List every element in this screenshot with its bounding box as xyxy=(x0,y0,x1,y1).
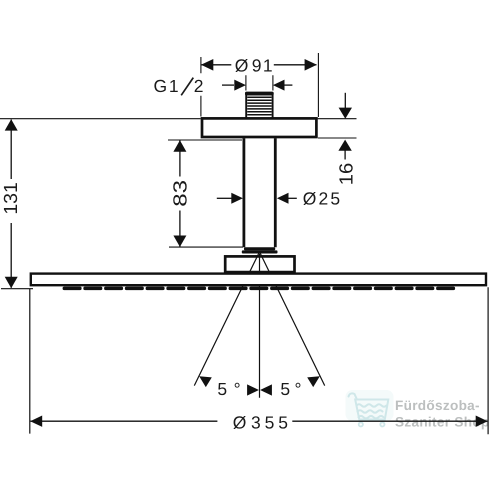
spray right tangent arrow xyxy=(307,376,320,387)
ceiling line xyxy=(0,118,357,120)
dim Ø91 extension lines xyxy=(201,53,319,117)
svg-text:Ø: Ø xyxy=(235,56,249,76)
label Ø25 text xyxy=(303,188,340,208)
spray right diagonal xyxy=(260,252,325,386)
svg-text:9: 9 xyxy=(252,56,262,76)
svg-text:5: 5 xyxy=(217,379,227,399)
G1/2 leader left xyxy=(222,84,234,86)
dim 131 line xyxy=(10,120,12,288)
svg-text:5: 5 xyxy=(278,413,288,433)
svg-text:°: ° xyxy=(234,379,241,399)
threaded rod hatch xyxy=(247,97,271,114)
spray bowtie arrows xyxy=(247,384,259,395)
dim Ø91 line xyxy=(202,64,317,66)
nozzle dashes xyxy=(63,287,456,291)
label Ø25 left arrow xyxy=(217,197,232,199)
svg-text:1: 1 xyxy=(169,76,179,96)
spray center line xyxy=(259,254,261,398)
label Ø25 right arrow xyxy=(288,197,296,199)
flange plate xyxy=(202,118,316,137)
pipe nut band 1 xyxy=(244,247,275,250)
dim Ø91 arrows xyxy=(201,59,213,71)
svg-text:5: 5 xyxy=(265,413,275,433)
svg-text:°: ° xyxy=(295,379,302,399)
pipe nut band 2 xyxy=(242,250,278,253)
svg-text:Szaniter Shop: Szaniter Shop xyxy=(395,415,490,430)
svg-text:131: 131 xyxy=(1,182,22,215)
dim 131 arrows xyxy=(5,119,18,130)
watermark cart icon xyxy=(349,393,389,426)
watermark text xyxy=(395,398,490,430)
dim 83 arrows xyxy=(173,140,186,151)
svg-text:Ø: Ø xyxy=(303,188,317,208)
dim Ø355 text xyxy=(233,413,288,433)
svg-text:G: G xyxy=(154,76,168,96)
svg-text:5: 5 xyxy=(330,188,340,208)
dim 83 extension lines xyxy=(168,140,243,247)
dim 16 down arrow xyxy=(344,93,346,108)
threaded rod sides xyxy=(246,93,272,118)
head body xyxy=(31,274,486,286)
watermark bubble xyxy=(346,390,394,421)
svg-text:2: 2 xyxy=(194,76,204,96)
svg-text:2: 2 xyxy=(319,188,329,208)
label 5° right xyxy=(280,379,301,399)
svg-text:83: 83 xyxy=(170,180,191,207)
svg-text:5: 5 xyxy=(280,379,290,399)
dim Ø91 text xyxy=(235,56,273,76)
threaded rod extension lines xyxy=(246,75,273,90)
dim Ø355 arrows xyxy=(30,416,42,427)
dim 83 line xyxy=(179,141,181,247)
svg-text:Fürdőszoba-: Fürdőszoba- xyxy=(395,398,480,413)
svg-text:16: 16 xyxy=(336,163,357,185)
G1/2 leader right xyxy=(284,84,292,86)
dim 131 bottom extension xyxy=(1,288,33,290)
spray left diagonal xyxy=(194,252,259,386)
dim 16 flange-bottom extension xyxy=(318,137,357,139)
dim Ø355 line xyxy=(31,420,488,422)
dim 16 up arrow xyxy=(344,151,346,160)
svg-text:3: 3 xyxy=(251,413,261,433)
spray left tangent arrow xyxy=(199,376,212,387)
threaded rod cap xyxy=(245,92,274,96)
escutcheon box xyxy=(225,256,294,272)
svg-text:Ø: Ø xyxy=(233,413,247,433)
label G1/2 xyxy=(154,76,179,96)
dim Ø355 extension lines xyxy=(30,287,488,434)
pipe walls xyxy=(244,138,275,247)
svg-text:1: 1 xyxy=(263,56,273,76)
label 5° left xyxy=(217,379,240,399)
